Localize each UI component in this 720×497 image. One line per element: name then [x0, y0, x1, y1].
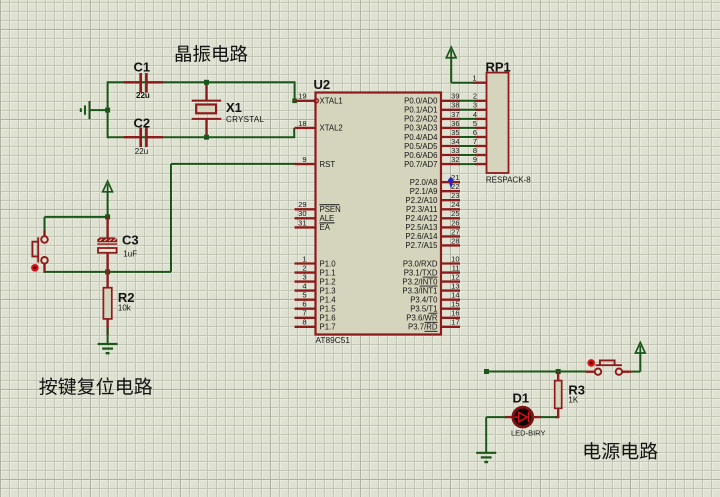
pin 19 XTAL1 (left) — [295, 100, 316, 102]
MCU U2 AT89C51 body — [316, 93, 442, 335]
svg-text:P2.4/A12: P2.4/A12 — [405, 214, 437, 223]
svg-text:32: 32 — [451, 155, 459, 164]
svg-text:RESPACK-8: RESPACK-8 — [486, 175, 531, 184]
svg-text:39: 39 — [451, 92, 459, 101]
svg-text:1K: 1K — [568, 395, 578, 404]
svg-text:P2.0/A8: P2.0/A8 — [410, 178, 438, 187]
svg-text:10k: 10k — [118, 304, 132, 313]
cursor marker (blue) at pin 21 — [448, 177, 454, 184]
svg-text:P0.5/AD5: P0.5/AD5 — [404, 142, 438, 151]
svg-text:P2.1/A9: P2.1/A9 — [410, 187, 438, 196]
svg-text:C2: C2 — [134, 116, 151, 131]
pin 21 P2.0/A8 (right) — [441, 181, 460, 183]
label: reset section title 按键复位电路 — [39, 377, 152, 395]
svg-text:P2.7/A15: P2.7/A15 — [405, 241, 438, 250]
svg-text:P3.0/RXD: P3.0/RXD — [403, 259, 438, 268]
junction: VCC tee / C3 top — [105, 214, 110, 219]
svg-text:10: 10 — [451, 254, 459, 263]
wire RST riser and RST horizontal — [170, 164, 172, 272]
svg-text:P3.4/T0: P3.4/T0 — [410, 296, 438, 305]
pin 8 RP1 / wire P0.6 net — [460, 154, 477, 156]
pin 35 P0.4/AD4 (right) — [441, 136, 460, 138]
pin 6 RP1 / wire P0.4 net — [460, 136, 477, 138]
svg-text:LED-BIRY: LED-BIRY — [511, 428, 545, 437]
svg-text:31: 31 — [298, 218, 306, 227]
ground (below R2) — [107, 327, 109, 344]
svg-text:P0.1/AD1: P0.1/AD1 — [404, 106, 437, 115]
svg-text:P2.3/A11: P2.3/A11 — [406, 205, 438, 214]
resistor R3 1K — [557, 372, 559, 381]
svg-text:1: 1 — [302, 254, 306, 263]
svg-text:6: 6 — [302, 300, 306, 309]
button (power) — [586, 371, 595, 373]
svg-text:P0.7/AD7: P0.7/AD7 — [404, 160, 437, 169]
pin 12 P3.2/INT0 (right) — [441, 280, 460, 282]
svg-text:6: 6 — [473, 128, 477, 137]
pin 4 RP1 / wire P0.2 net — [460, 118, 477, 120]
pin 33 P0.6/AD6 (right) — [441, 154, 460, 156]
pin 32 P0.7/AD7 (right) — [441, 163, 460, 165]
power symbol (right VCC arrow) — [632, 371, 641, 373]
svg-text:28: 28 — [451, 236, 459, 245]
svg-text:P1.2: P1.2 — [320, 277, 336, 286]
svg-text:22u: 22u — [136, 91, 150, 100]
resistor pack RP1 RESPACK-8 body — [487, 73, 509, 173]
svg-text:P3.1/TXD: P3.1/TXD — [404, 268, 438, 277]
svg-text:2: 2 — [473, 92, 477, 101]
svg-text:19: 19 — [298, 92, 306, 101]
svg-text:7: 7 — [302, 309, 306, 318]
svg-text:3: 3 — [302, 273, 306, 282]
wire left vertical joining C1/C2 — [107, 81, 109, 138]
svg-text:18: 18 — [298, 119, 306, 128]
pin 29 PSEN (left) — [295, 208, 316, 210]
svg-text:X1: X1 — [226, 100, 242, 115]
crystal X1 — [205, 82, 207, 100]
svg-text:4: 4 — [473, 110, 477, 119]
ground (below LED) — [476, 452, 496, 454]
wire button bottom net to RST riser — [45, 271, 172, 273]
pin 36 P0.3/AD3 (right) — [441, 127, 460, 129]
svg-text:D1: D1 — [513, 391, 530, 406]
label: power section title 电源电路 — [585, 442, 658, 460]
svg-text:9: 9 — [473, 155, 477, 164]
label: crystal section title 晶振电路 — [176, 45, 248, 62]
svg-text:AT89C51: AT89C51 — [316, 335, 351, 345]
pin 13 P3.3/INT1 (right) — [441, 289, 460, 291]
pin 39 P0.0/AD0 (right) — [441, 100, 460, 102]
wire R3 to LED — [540, 416, 557, 418]
pin 38 P0.1/AD1 (right) — [441, 109, 460, 111]
svg-text:13: 13 — [451, 282, 459, 291]
svg-text:P0.3/AD3: P0.3/AD3 — [404, 124, 437, 133]
pin 15 P3.5/T1 (right) — [441, 308, 460, 310]
pin 9 RST (left) — [295, 163, 316, 165]
pin 5 P1.4 (left) — [295, 299, 316, 301]
svg-text:16: 16 — [451, 309, 459, 318]
svg-text:P3.3/INT1: P3.3/INT1 — [402, 286, 437, 295]
pin 22 P2.1/A9 (right) — [441, 190, 460, 192]
pin 34 P0.5/AD5 (right) — [441, 145, 460, 147]
svg-text:P0.6/AD6: P0.6/AD6 — [404, 151, 437, 160]
junction: R3 tee — [556, 369, 561, 374]
svg-text:4: 4 — [302, 282, 306, 291]
wire bottom net C2/X1 to XTAL2 — [108, 136, 296, 138]
pin 7 P1.6 (left) — [295, 317, 316, 319]
wire LED to ground — [486, 416, 505, 418]
svg-text:26: 26 — [451, 218, 459, 227]
ground (left, horizontal) — [90, 109, 108, 111]
pin 7 RP1 / wire P0.5 net — [460, 145, 477, 147]
pin 28 P2.7/A15 (right) — [441, 244, 460, 246]
svg-text:22u: 22u — [135, 147, 148, 156]
svg-text:17: 17 — [451, 318, 459, 327]
pin 30 ALE (left) — [295, 217, 316, 219]
svg-text:P2.2/A10: P2.2/A10 — [405, 196, 438, 205]
svg-text:P0.2/AD2: P0.2/AD2 — [404, 115, 437, 124]
svg-text:27: 27 — [451, 227, 459, 236]
button (reset) — [43, 231, 45, 237]
pin 27 P2.6/A14 (right) — [441, 235, 460, 237]
pin 2 P1.1 (left) — [295, 271, 316, 273]
svg-text:P2.6/A14: P2.6/A14 — [405, 232, 438, 241]
svg-text:P1.0: P1.0 — [320, 259, 337, 268]
pin 1 P1.0 (left) — [295, 262, 316, 264]
svg-text:5: 5 — [473, 119, 477, 128]
svg-text:U2: U2 — [314, 77, 331, 92]
svg-text:RP1: RP1 — [486, 59, 511, 74]
pin 1 RP1 — [473, 82, 486, 84]
svg-text:C1: C1 — [134, 60, 151, 75]
svg-text:38: 38 — [451, 101, 459, 110]
wire main VCC net — [487, 371, 587, 373]
junction: X1 bottom — [204, 135, 209, 140]
power symbol (reset circuit VCC) — [103, 181, 113, 192]
svg-text:2: 2 — [302, 264, 306, 273]
wire top net C1/X1 to XTAL1 — [108, 81, 296, 83]
svg-text:36: 36 — [451, 119, 459, 128]
svg-text:9: 9 — [302, 155, 306, 164]
svg-text:P3.2/INT0: P3.2/INT0 — [402, 277, 438, 286]
svg-text:15: 15 — [451, 300, 459, 309]
svg-text:34: 34 — [451, 137, 459, 146]
svg-text:P1.3: P1.3 — [320, 286, 336, 295]
svg-text:11: 11 — [452, 264, 460, 273]
svg-text:P3.7/RD: P3.7/RD — [408, 323, 438, 332]
svg-text:P3.5/T1: P3.5/T1 — [410, 305, 437, 314]
svg-text:25: 25 — [451, 209, 459, 218]
svg-text:XTAL2: XTAL2 — [320, 124, 343, 133]
svg-text:33: 33 — [451, 146, 459, 155]
svg-text:P2.5/A13: P2.5/A13 — [405, 223, 437, 232]
svg-text:37: 37 — [451, 110, 459, 119]
pin 11 P3.1/TXD (right) — [441, 271, 460, 273]
pin 18 XTAL2 (left) — [295, 127, 316, 129]
pin 26 P2.5/A13 (right) — [441, 226, 460, 228]
pin 16 P3.6/WR (right) — [441, 317, 460, 319]
junction: ground to C1/C2 wire — [105, 108, 110, 113]
svg-text:ALE: ALE — [320, 214, 335, 223]
svg-text:EA: EA — [320, 223, 331, 232]
svg-text:8: 8 — [473, 146, 477, 155]
pin 25 P2.4/A12 (right) — [441, 217, 460, 219]
junction: X1 top — [204, 80, 209, 85]
pin 10 P3.0/RXD (right) — [441, 262, 460, 264]
svg-text:1: 1 — [472, 73, 476, 82]
svg-text:P1.1: P1.1 — [320, 268, 336, 277]
svg-text:8: 8 — [302, 318, 306, 327]
svg-text:PSEN: PSEN — [320, 205, 341, 214]
origin marker (red dot) of reset button — [31, 264, 39, 272]
LED D1 LED-BIRY — [505, 416, 513, 418]
origin marker (red dot) of power button — [587, 359, 595, 367]
svg-text:P1.4: P1.4 — [320, 296, 337, 305]
svg-text:RST: RST — [320, 160, 336, 169]
junction: wire corner at XTAL1 pin — [292, 99, 297, 104]
svg-text:XTAL1: XTAL1 — [320, 97, 343, 106]
svg-text:P1.5: P1.5 — [320, 305, 337, 314]
svg-text:24: 24 — [451, 200, 459, 209]
pin 5 RP1 / wire P0.3 net — [460, 127, 477, 129]
svg-text:3: 3 — [473, 101, 477, 110]
svg-text:P3.6/WR: P3.6/WR — [406, 314, 438, 323]
wire VCC tee to button column — [45, 216, 108, 218]
svg-text:12: 12 — [451, 273, 459, 282]
pin 31 EA (left) — [295, 226, 316, 228]
pin 4 P1.3 (left) — [295, 289, 316, 291]
pin 17 P3.7/RD (right) — [441, 326, 460, 328]
pin 2 RP1 / wire P0.0 net — [460, 100, 477, 102]
svg-text:23: 23 — [451, 191, 459, 200]
pin 3 RP1 / wire P0.1 net — [460, 109, 477, 111]
pin 8 P1.7 (left) — [295, 326, 316, 328]
svg-text:30: 30 — [298, 209, 306, 218]
svg-text:29: 29 — [298, 200, 306, 209]
svg-text:14: 14 — [451, 291, 459, 300]
pin 23 P2.2/A10 (right) — [441, 199, 460, 201]
svg-text:CRYSTAL: CRYSTAL — [226, 115, 265, 124]
svg-text:P1.6: P1.6 — [320, 314, 336, 323]
pin 14 P3.4/T0 (right) — [441, 299, 460, 301]
pin 9 RP1 / wire P0.7 net — [460, 163, 477, 165]
junction: open wire end dot — [484, 369, 489, 374]
pin 3 P1.2 (left) — [295, 280, 316, 282]
svg-text:P0.4/AD4: P0.4/AD4 — [404, 133, 438, 142]
capacitor C3 1uF (electrolytic) — [106, 217, 108, 238]
origin marker circle at XTAL1 — [314, 99, 318, 103]
power symbol (RP1 VCC) — [446, 47, 456, 58]
svg-text:C3: C3 — [122, 232, 139, 247]
pin 6 P1.5 (left) — [295, 308, 316, 310]
svg-text:7: 7 — [473, 137, 477, 146]
junction: C3/R2 bottom tee — [105, 269, 110, 274]
svg-text:P0.0/AD0: P0.0/AD0 — [404, 97, 438, 106]
svg-text:P1.7: P1.7 — [320, 323, 336, 332]
pin 24 P2.3/A11 (right) — [441, 208, 460, 210]
capacitor C1 22u — [124, 81, 140, 83]
capacitor C2 22u — [124, 136, 140, 138]
pin 37 P0.2/AD2 (right) — [441, 118, 460, 120]
svg-text:R2: R2 — [118, 290, 135, 305]
svg-text:1uF: 1uF — [123, 250, 137, 259]
svg-text:35: 35 — [451, 128, 459, 137]
svg-text:5: 5 — [302, 291, 306, 300]
resistor R2 10k — [106, 272, 108, 288]
